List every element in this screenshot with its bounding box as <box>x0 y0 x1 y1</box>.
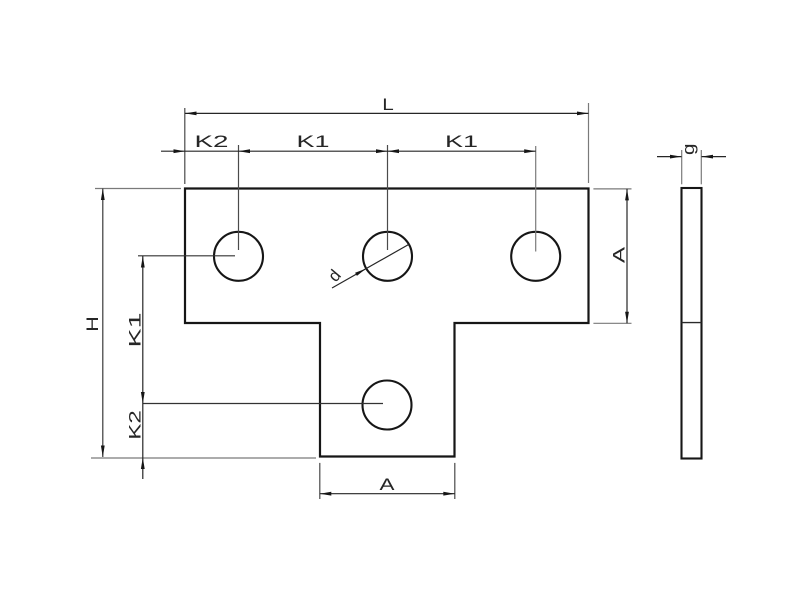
svg-text:K1: K1 <box>297 132 330 151</box>
svg-text:K2: K2 <box>195 132 229 151</box>
svg-text:K1: K1 <box>126 313 145 348</box>
svg-text:K2: K2 <box>126 410 145 440</box>
svg-text:A: A <box>380 475 396 494</box>
svg-text:L: L <box>382 95 394 114</box>
svg-text:K1: K1 <box>445 132 478 151</box>
svg-text:H: H <box>83 316 102 332</box>
svg-text:g: g <box>679 144 698 156</box>
svg-text:A: A <box>610 246 629 263</box>
